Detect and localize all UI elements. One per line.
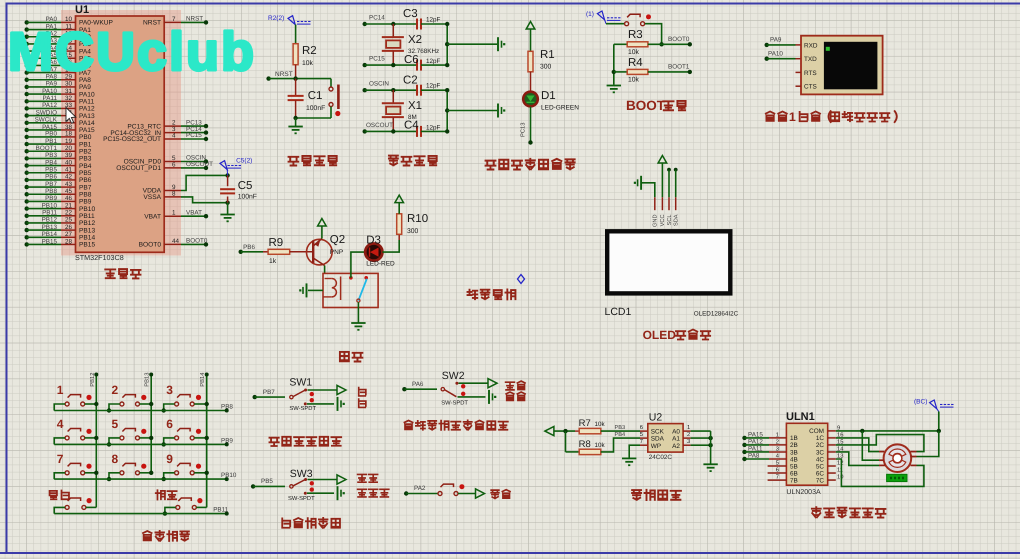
svg-text:TXD: TXD [804, 56, 817, 63]
wire confirm left to row PB11 [165, 507, 176, 513]
chip ULN1 ULN2003A body [786, 423, 827, 485]
ground relay coil rotated [306, 283, 308, 297]
wire net OSCOUT from U1 [181, 167, 206, 169]
svg-text:PB4: PB4 [45, 159, 57, 166]
wire net VBAT from U1 [181, 215, 206, 217]
svg-text:PB10: PB10 [79, 206, 95, 213]
svg-text:20: 20 [65, 145, 73, 152]
wire R3 R4 left rail [613, 44, 615, 84]
resistor R9 [268, 249, 290, 254]
mouse cursor [66, 108, 76, 124]
svg-text:OLED: OLED [643, 328, 677, 342]
capacitor C3 [416, 23, 418, 25]
svg-text:C5(2): C5(2) [236, 158, 252, 165]
power terminal OLED VCC [658, 156, 667, 164]
svg-text:OSCIN: OSCIN [369, 81, 389, 88]
svg-text:PA12: PA12 [42, 102, 57, 109]
wire row PB8 [54, 410, 227, 412]
svg-text:24C02C: 24C02C [649, 454, 673, 461]
wire net PC14 from U1 [181, 132, 206, 134]
svg-text:1C: 1C [816, 435, 825, 442]
wire button to arrow [458, 493, 476, 495]
svg-text:PB13: PB13 [144, 373, 151, 387]
ground reset circuit [288, 126, 302, 128]
svg-text:LED-RED: LED-RED [366, 261, 395, 268]
svg-text:R1: R1 [540, 49, 555, 61]
wire net PB5 to SW3 [251, 484, 255, 488]
wire net BOOT0 [648, 43, 690, 45]
svg-text:PA11: PA11 [79, 98, 94, 105]
svg-text:(1): (1) [586, 11, 594, 18]
resistor R1 [528, 51, 533, 72]
wire X1 right rail [446, 90, 448, 131]
U1 left pin 18 PB0 wire net PB0 [25, 135, 29, 139]
wire power to R10 [398, 203, 400, 214]
svg-text:R8: R8 [579, 439, 591, 450]
label 矩阵键盘 [143, 531, 189, 541]
svg-text:PC15: PC15 [186, 132, 202, 139]
button cancel [65, 505, 69, 509]
U1 left pin 33 PA12 wire net PA12 [25, 106, 29, 110]
svg-text:1k: 1k [269, 258, 277, 265]
svg-text:9: 9 [166, 452, 173, 466]
svg-text:X1: X1 [408, 100, 422, 112]
wire confirm right to column PB14 [196, 506, 206, 508]
wire U2 A1 to rail [683, 437, 691, 439]
svg-text:STM32F103C8: STM32F103C8 [75, 253, 124, 262]
svg-text:PB8: PB8 [79, 191, 92, 198]
capacitor C2 [416, 85, 418, 96]
svg-text:PA10: PA10 [42, 88, 57, 95]
button scan [438, 492, 442, 496]
svg-text:10k: 10k [302, 60, 314, 67]
ground SW3 rotated [337, 486, 339, 500]
wire net OSCIN [363, 88, 367, 92]
svg-text:PA15: PA15 [748, 431, 763, 438]
svg-text:SDA: SDA [674, 214, 680, 226]
svg-text:RTS: RTS [804, 70, 817, 77]
wire net PA11 to ULN 3B [742, 450, 746, 454]
wire row PB9 [54, 443, 227, 445]
wire key 3 right to column [194, 403, 207, 405]
virtual terminal window [801, 36, 883, 95]
U1 left pin 12 PA2 wire net PA2 [25, 35, 29, 39]
svg-text:5C: 5C [816, 463, 825, 470]
svg-text:10k: 10k [628, 76, 640, 83]
wire button bottom to C1 bottom [330, 107, 332, 119]
svg-text:PA11: PA11 [748, 445, 763, 452]
svg-text:3: 3 [166, 383, 173, 397]
wire column PB13 [150, 375, 152, 473]
U1 left pin 43 PB7 wire net PB7 [25, 185, 29, 189]
svg-text:26: 26 [65, 224, 73, 231]
wire VDDA to C5 top [181, 175, 228, 190]
svg-text:10k: 10k [595, 442, 606, 449]
svg-text:ULN1: ULN1 [786, 411, 815, 423]
U1 left pin 10 PA0-WKUP wire net PA0 [25, 20, 29, 24]
ULN pin 5B stub [768, 465, 787, 467]
wire ULN 4C to motor right-bottom [836, 459, 924, 486]
svg-text:18: 18 [65, 131, 73, 138]
button key 1 [65, 402, 69, 406]
svg-text:PA14: PA14 [79, 120, 95, 127]
svg-text:R7: R7 [579, 418, 591, 429]
svg-text:PB11: PB11 [42, 210, 57, 217]
svg-text:SW-SPDT: SW-SPDT [441, 400, 468, 407]
wire net PB6 to R9 [239, 250, 243, 254]
resistor R8 [579, 449, 601, 454]
wire U2 A0 to rail [683, 430, 691, 432]
node PC13 end [528, 140, 532, 144]
button reset vertical [330, 79, 332, 87]
svg-text:PB6: PB6 [243, 244, 255, 251]
svg-text:5: 5 [640, 432, 643, 438]
U1 left pin 15 PA5 wire net PA5 [25, 56, 29, 60]
label 暗 [359, 388, 366, 396]
svg-text:PA11: PA11 [43, 95, 58, 102]
wire Q2 collector to relay [324, 266, 326, 274]
svg-text:PC13: PC13 [520, 122, 527, 137]
svg-text:PB15: PB15 [79, 242, 95, 249]
label 复位电路 [289, 156, 337, 166]
svg-text:PB0: PB0 [45, 131, 57, 138]
U1 left pin 16 PA6 wire net PA6 [25, 63, 29, 67]
arrow terminal scan [476, 489, 485, 498]
node X1 bottom junction [391, 129, 395, 133]
svg-text:PB13: PB13 [42, 224, 58, 231]
svg-text:PB4: PB4 [615, 432, 626, 438]
svg-text:PB5: PB5 [261, 478, 273, 485]
wire R2 to NRST node [295, 65, 297, 79]
wire power to Q2 emitter [321, 226, 323, 239]
wire net PA8 to ULN 4B [742, 457, 746, 461]
label 扫码 [491, 490, 510, 499]
svg-text:PB12: PB12 [79, 220, 95, 227]
svg-text:SW3: SW3 [290, 468, 313, 480]
wire COM to motor left-mid [862, 431, 879, 460]
wire key 4 left to row [54, 438, 65, 445]
arrow terminal SW3 [337, 475, 346, 484]
svg-text:5B: 5B [790, 463, 798, 470]
wire SW2 low throw to ground [458, 396, 486, 398]
label 晶振电路 [389, 156, 437, 166]
svg-text:40: 40 [65, 159, 73, 166]
power flag C5(2) [220, 161, 227, 170]
wire net NRST from U1 [181, 21, 206, 23]
svg-text:BOOT0: BOOT0 [186, 238, 208, 245]
svg-text:R9: R9 [269, 237, 284, 249]
node marker independent key [518, 275, 525, 284]
wire X2 right rail [446, 24, 448, 65]
LED D1 LED-GREEN [523, 92, 538, 107]
U1 left pin 17 PA7 wire net PA7 [25, 70, 29, 74]
label 有人 [506, 392, 525, 400]
svg-text:BOOT0: BOOT0 [139, 242, 162, 249]
svg-text:PB8: PB8 [221, 404, 233, 411]
wire U2 right rail to ground [710, 431, 712, 464]
stepper motor bottom wedge [889, 460, 906, 467]
svg-text:PB15: PB15 [42, 238, 58, 245]
svg-text:PB12: PB12 [42, 217, 58, 224]
U1 left pin 37 PA14 wire net SWCLK [25, 121, 29, 125]
wire cancel right to column PB12 [86, 506, 96, 508]
svg-text:10k: 10k [628, 49, 640, 56]
U1 left pin 39 PB3 wire net PB3 [25, 156, 29, 160]
svg-text:NRST: NRST [275, 71, 293, 78]
svg-text:OSCOUT: OSCOUT [186, 161, 213, 168]
wire R7 to U2 SCK [601, 430, 640, 432]
wire key 1 right to column [85, 403, 97, 405]
label 触发 [358, 474, 378, 482]
svg-text:2B: 2B [790, 442, 798, 449]
svg-text:PB5: PB5 [45, 167, 57, 174]
U1 left pin 11 PA1 wire net PA1 [25, 27, 29, 31]
wire flag to boot button [606, 23, 625, 25]
svg-text:PA12: PA12 [748, 438, 763, 445]
wire column PB14 [206, 375, 208, 508]
svg-text:VBAT: VBAT [144, 213, 161, 220]
svg-text:R4: R4 [628, 57, 643, 69]
ground U2 WP [622, 457, 636, 459]
wire net OSCOUT [363, 129, 367, 133]
label 存储模块 [632, 490, 681, 500]
wire key 5 right to column [140, 437, 152, 439]
svg-text:3: 3 [776, 445, 779, 452]
svg-text:D3: D3 [366, 235, 381, 247]
wire cancel left to row PB11 [54, 507, 65, 513]
svg-text:6: 6 [640, 424, 643, 431]
wire R1 to D1 [530, 72, 532, 92]
svg-text:R10: R10 [407, 213, 428, 225]
wire net PA2 to button [404, 491, 408, 495]
node R4 left junction [612, 70, 616, 74]
U1 left pin 26 PB13 wire net PB13 [25, 228, 29, 232]
svg-text:10: 10 [837, 474, 843, 481]
svg-text:SW-SPDT: SW-SPDT [289, 405, 316, 412]
arrow terminal SW2 [488, 379, 497, 388]
ground X2 rotated [497, 37, 499, 51]
stepper motor top wedge [889, 449, 906, 456]
capacitor C6 [416, 60, 418, 71]
button key 9 [175, 471, 179, 475]
wire R8 to U2 SDA [601, 438, 640, 452]
wire flag down to COM rail [938, 412, 940, 431]
svg-text:PB14: PB14 [42, 231, 58, 238]
svg-text:100nF: 100nF [238, 194, 257, 201]
svg-text:BOOT1: BOOT1 [668, 64, 690, 71]
node X2 bottom junction [391, 63, 395, 67]
svg-text:3B: 3B [790, 449, 798, 456]
resistor R10 [398, 234, 400, 240]
svg-text:PB3: PB3 [79, 156, 92, 163]
wire key 1 left to row [54, 404, 65, 411]
relay contact NC [349, 276, 353, 280]
svg-text:27: 27 [65, 231, 73, 238]
svg-text:1: 1 [57, 383, 64, 397]
arrow terminal SW1 up [337, 385, 346, 394]
wire key 3 left to row [164, 404, 175, 411]
label 补光 [340, 352, 362, 362]
button key 8 [120, 471, 124, 475]
LED D3 LED-RED [365, 244, 382, 261]
svg-text:PB11: PB11 [79, 213, 95, 220]
svg-text:PA8: PA8 [748, 452, 760, 459]
svg-text:PB9: PB9 [45, 195, 57, 202]
svg-text:4C: 4C [816, 456, 825, 463]
wire net OSCIN from U1 [181, 161, 206, 163]
svg-text:100nF: 100nF [306, 105, 325, 112]
U1 left pin 38 PA15 wire net PA15 [25, 128, 29, 132]
svg-text:ULN2003A: ULN2003A [786, 489, 821, 496]
button key 4 [65, 436, 69, 440]
svg-text:SW-SPDT: SW-SPDT [288, 495, 315, 502]
crystal X2 [392, 24, 394, 37]
wire key 8 right to column [140, 472, 152, 474]
wire rail to ground X2 [447, 43, 497, 45]
chip U2 24C02C body [648, 424, 683, 453]
svg-text:PB3: PB3 [615, 425, 626, 431]
U1 left pin 13 PA3 wire net PA3 [25, 42, 29, 46]
svg-text:SWCLK: SWCLK [35, 117, 58, 124]
node C5 top junction [225, 173, 229, 177]
wire C5 bottom to ground [227, 203, 229, 214]
wire arrow to R7 [554, 430, 575, 432]
power flag R2(2) [288, 16, 295, 25]
svg-text:D1: D1 [541, 90, 556, 102]
OLED display LCD1 body [607, 231, 730, 293]
svg-text:12pF: 12pF [426, 17, 441, 24]
button key 6 [175, 436, 179, 440]
svg-text:PC14: PC14 [369, 15, 385, 22]
svg-text:38: 38 [65, 124, 73, 131]
svg-text:19: 19 [65, 138, 73, 145]
svg-text:300: 300 [407, 228, 419, 235]
wire SCL pin [667, 168, 671, 172]
wire C3 to rail [421, 23, 447, 25]
svg-text:PB7: PB7 [45, 181, 57, 188]
wire net BOOT1 [648, 71, 690, 73]
svg-text:1: 1 [789, 110, 796, 124]
wire key 6 right to column [194, 437, 207, 439]
svg-text:A2: A2 [672, 443, 680, 450]
svg-text:RXD: RXD [804, 42, 818, 49]
label 四项步进电机 [812, 507, 885, 517]
svg-text:PB2: PB2 [79, 148, 92, 155]
wire SW1 NO to arrow [308, 389, 338, 391]
svg-text:PB1: PB1 [45, 138, 57, 145]
node R7 left junction [563, 429, 567, 433]
svg-text:7: 7 [776, 475, 779, 481]
button key 5 [120, 436, 124, 440]
svg-text:C6: C6 [404, 54, 419, 66]
svg-text:Q2: Q2 [330, 234, 345, 246]
label 亮 [359, 399, 366, 407]
U1 left pin 45 PB8 wire net PB8 [25, 192, 29, 196]
power flag (BC) [930, 400, 937, 409]
U1 selection highlight [61, 10, 181, 256]
svg-text:PA6: PA6 [412, 381, 424, 388]
power terminal R10 [395, 195, 404, 203]
ground below C5 [220, 214, 234, 216]
svg-text:8: 8 [112, 452, 119, 466]
wire COM net [836, 430, 939, 432]
node X2 top junction [391, 22, 395, 26]
svg-text:X2: X2 [408, 34, 422, 46]
svg-text:22: 22 [65, 210, 73, 217]
svg-text:PB13: PB13 [79, 227, 95, 234]
wire net BOOT0 from U1 [181, 243, 206, 245]
svg-text:VSSA: VSSA [143, 194, 161, 201]
svg-text:1B: 1B [790, 435, 798, 442]
svg-text:R2: R2 [302, 45, 317, 57]
U1 left pin 32 PA11 wire net PA11 [25, 99, 29, 103]
resistor R2 [295, 44, 297, 45]
svg-text:6: 6 [776, 467, 779, 474]
svg-text:21: 21 [65, 202, 73, 209]
svg-text:39: 39 [65, 152, 73, 159]
wire net PA10 to TXD [765, 57, 769, 61]
wire key 7 left to row [54, 473, 65, 479]
terminal cursor [826, 47, 830, 51]
ULN right pin stubs [828, 430, 836, 432]
terminal pin RTS stub [796, 71, 802, 73]
svg-text:42: 42 [65, 174, 73, 181]
svg-text:PNP: PNP [330, 249, 343, 256]
svg-text:C2: C2 [403, 75, 418, 87]
svg-text:PA9: PA9 [770, 37, 782, 44]
svg-text:2: 2 [687, 431, 690, 438]
ground relay [351, 322, 365, 324]
svg-text:PB14: PB14 [79, 234, 95, 241]
wire power to R2 [295, 25, 297, 44]
wire ULN 1C to motor left-top [836, 438, 879, 452]
svg-text:OLED12864I2C: OLED12864I2C [694, 311, 739, 318]
ground X1 rotated [497, 104, 499, 118]
wire D3 to R10 [382, 240, 399, 252]
U1 left pin 29 PA8 wire net PA8 [25, 78, 29, 82]
ground BOOT circuit [607, 85, 621, 87]
svg-text:PB6: PB6 [79, 177, 92, 184]
svg-text:43: 43 [65, 181, 73, 188]
wire key 2 left to row [109, 404, 120, 411]
label 无人 [506, 381, 525, 390]
svg-text:10k: 10k [595, 421, 606, 428]
svg-text:PB9: PB9 [221, 437, 233, 444]
label 人体热释电感应模块 [404, 420, 507, 430]
label 红外对射管 [282, 518, 340, 528]
svg-text:PB12: PB12 [89, 373, 96, 387]
wire net PA12 to ULN 2B [742, 443, 746, 447]
wire to ground [295, 118, 297, 126]
wire key 8 left to row [109, 473, 120, 479]
svg-text:U2: U2 [649, 412, 663, 424]
wire key 5 left to row [109, 438, 120, 445]
wire COM to motor right-mid [917, 431, 939, 457]
svg-text:5: 5 [112, 417, 119, 431]
node R3 right junction [659, 42, 663, 46]
U1 left pin 40 PB4 wire net PB4 [25, 163, 29, 167]
U1 left pin 34 PA13 wire net SWDIO [25, 113, 29, 117]
wire U2 WP to ground [640, 444, 648, 446]
stepper motor terminals [879, 451, 884, 453]
U1 left pin 22 PB11 wire net PB11 [25, 214, 29, 218]
wire rail to ground X1 [447, 110, 497, 112]
main chip U1 body STM32F103C8 [76, 16, 165, 252]
node X2 rail mid [445, 42, 449, 46]
svg-text:4: 4 [57, 417, 64, 431]
svg-text:C3: C3 [403, 8, 418, 20]
svg-text:(BC): (BC) [914, 399, 927, 406]
